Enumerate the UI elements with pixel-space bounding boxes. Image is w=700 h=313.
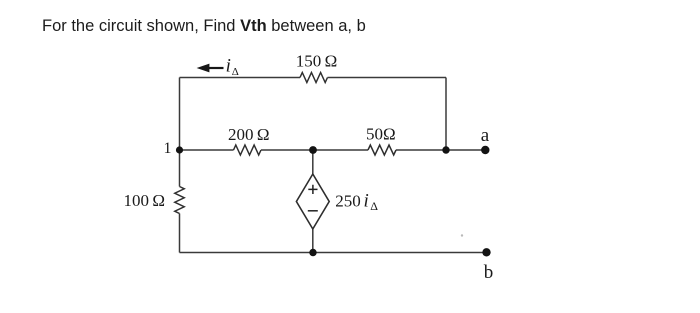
svg-text:Δ: Δ [232,66,239,78]
svg-text:200 Ω: 200 Ω [228,125,270,144]
resistor R 150ohm zigzag [300,73,327,83]
center junction dot middle wire [309,146,317,154]
wire left rail upper [179,78,181,187]
svg-text:1: 1 [164,140,172,157]
wire top-right segment [328,77,447,79]
resistor R 50ohm zigzag [368,145,396,155]
wire middle node1 to 200ohm [180,149,234,151]
wire middle 50ohm to right junction [396,149,446,151]
title text [42,17,366,36]
wire right rail [445,78,447,151]
svg-text:100 Ω: 100 Ω [123,191,165,210]
wire stub center junction down to source [312,150,314,174]
svg-text:50Ω: 50Ω [366,125,396,144]
resistor R 200ohm zigzag [234,145,261,155]
wire middle center junction to 50ohm [313,149,368,151]
wire middle 200ohm to center junction [261,149,313,151]
wire right junction to node a [446,149,489,151]
wire stub source bottom down [312,229,314,253]
svg-text:Δ: Δ [370,199,378,213]
right junction dot middle wire [442,146,449,153]
wire bottom rail [180,252,487,254]
faint scan speck [461,234,463,236]
bottom junction dot [309,249,316,256]
minus sign inside source [308,210,318,212]
plus sign inside source [308,185,317,194]
svg-text:150 Ω: 150 Ω [296,52,338,71]
svg-text:250: 250 [335,191,361,210]
svg-text:i: i [226,55,231,76]
svg-text:a: a [481,125,490,146]
svg-text:b: b [484,262,494,283]
node b terminal dot [482,248,490,256]
arrow for current i-delta [197,64,224,73]
resistor R 100ohm zigzag [175,187,184,214]
node 1 junction dot [176,146,183,153]
node a terminal dot [481,146,489,154]
wire top-left segment [180,77,301,79]
svg-text:i: i [364,190,369,211]
wire left rail lower [179,214,181,253]
dependent source U1 diamond [296,174,329,229]
